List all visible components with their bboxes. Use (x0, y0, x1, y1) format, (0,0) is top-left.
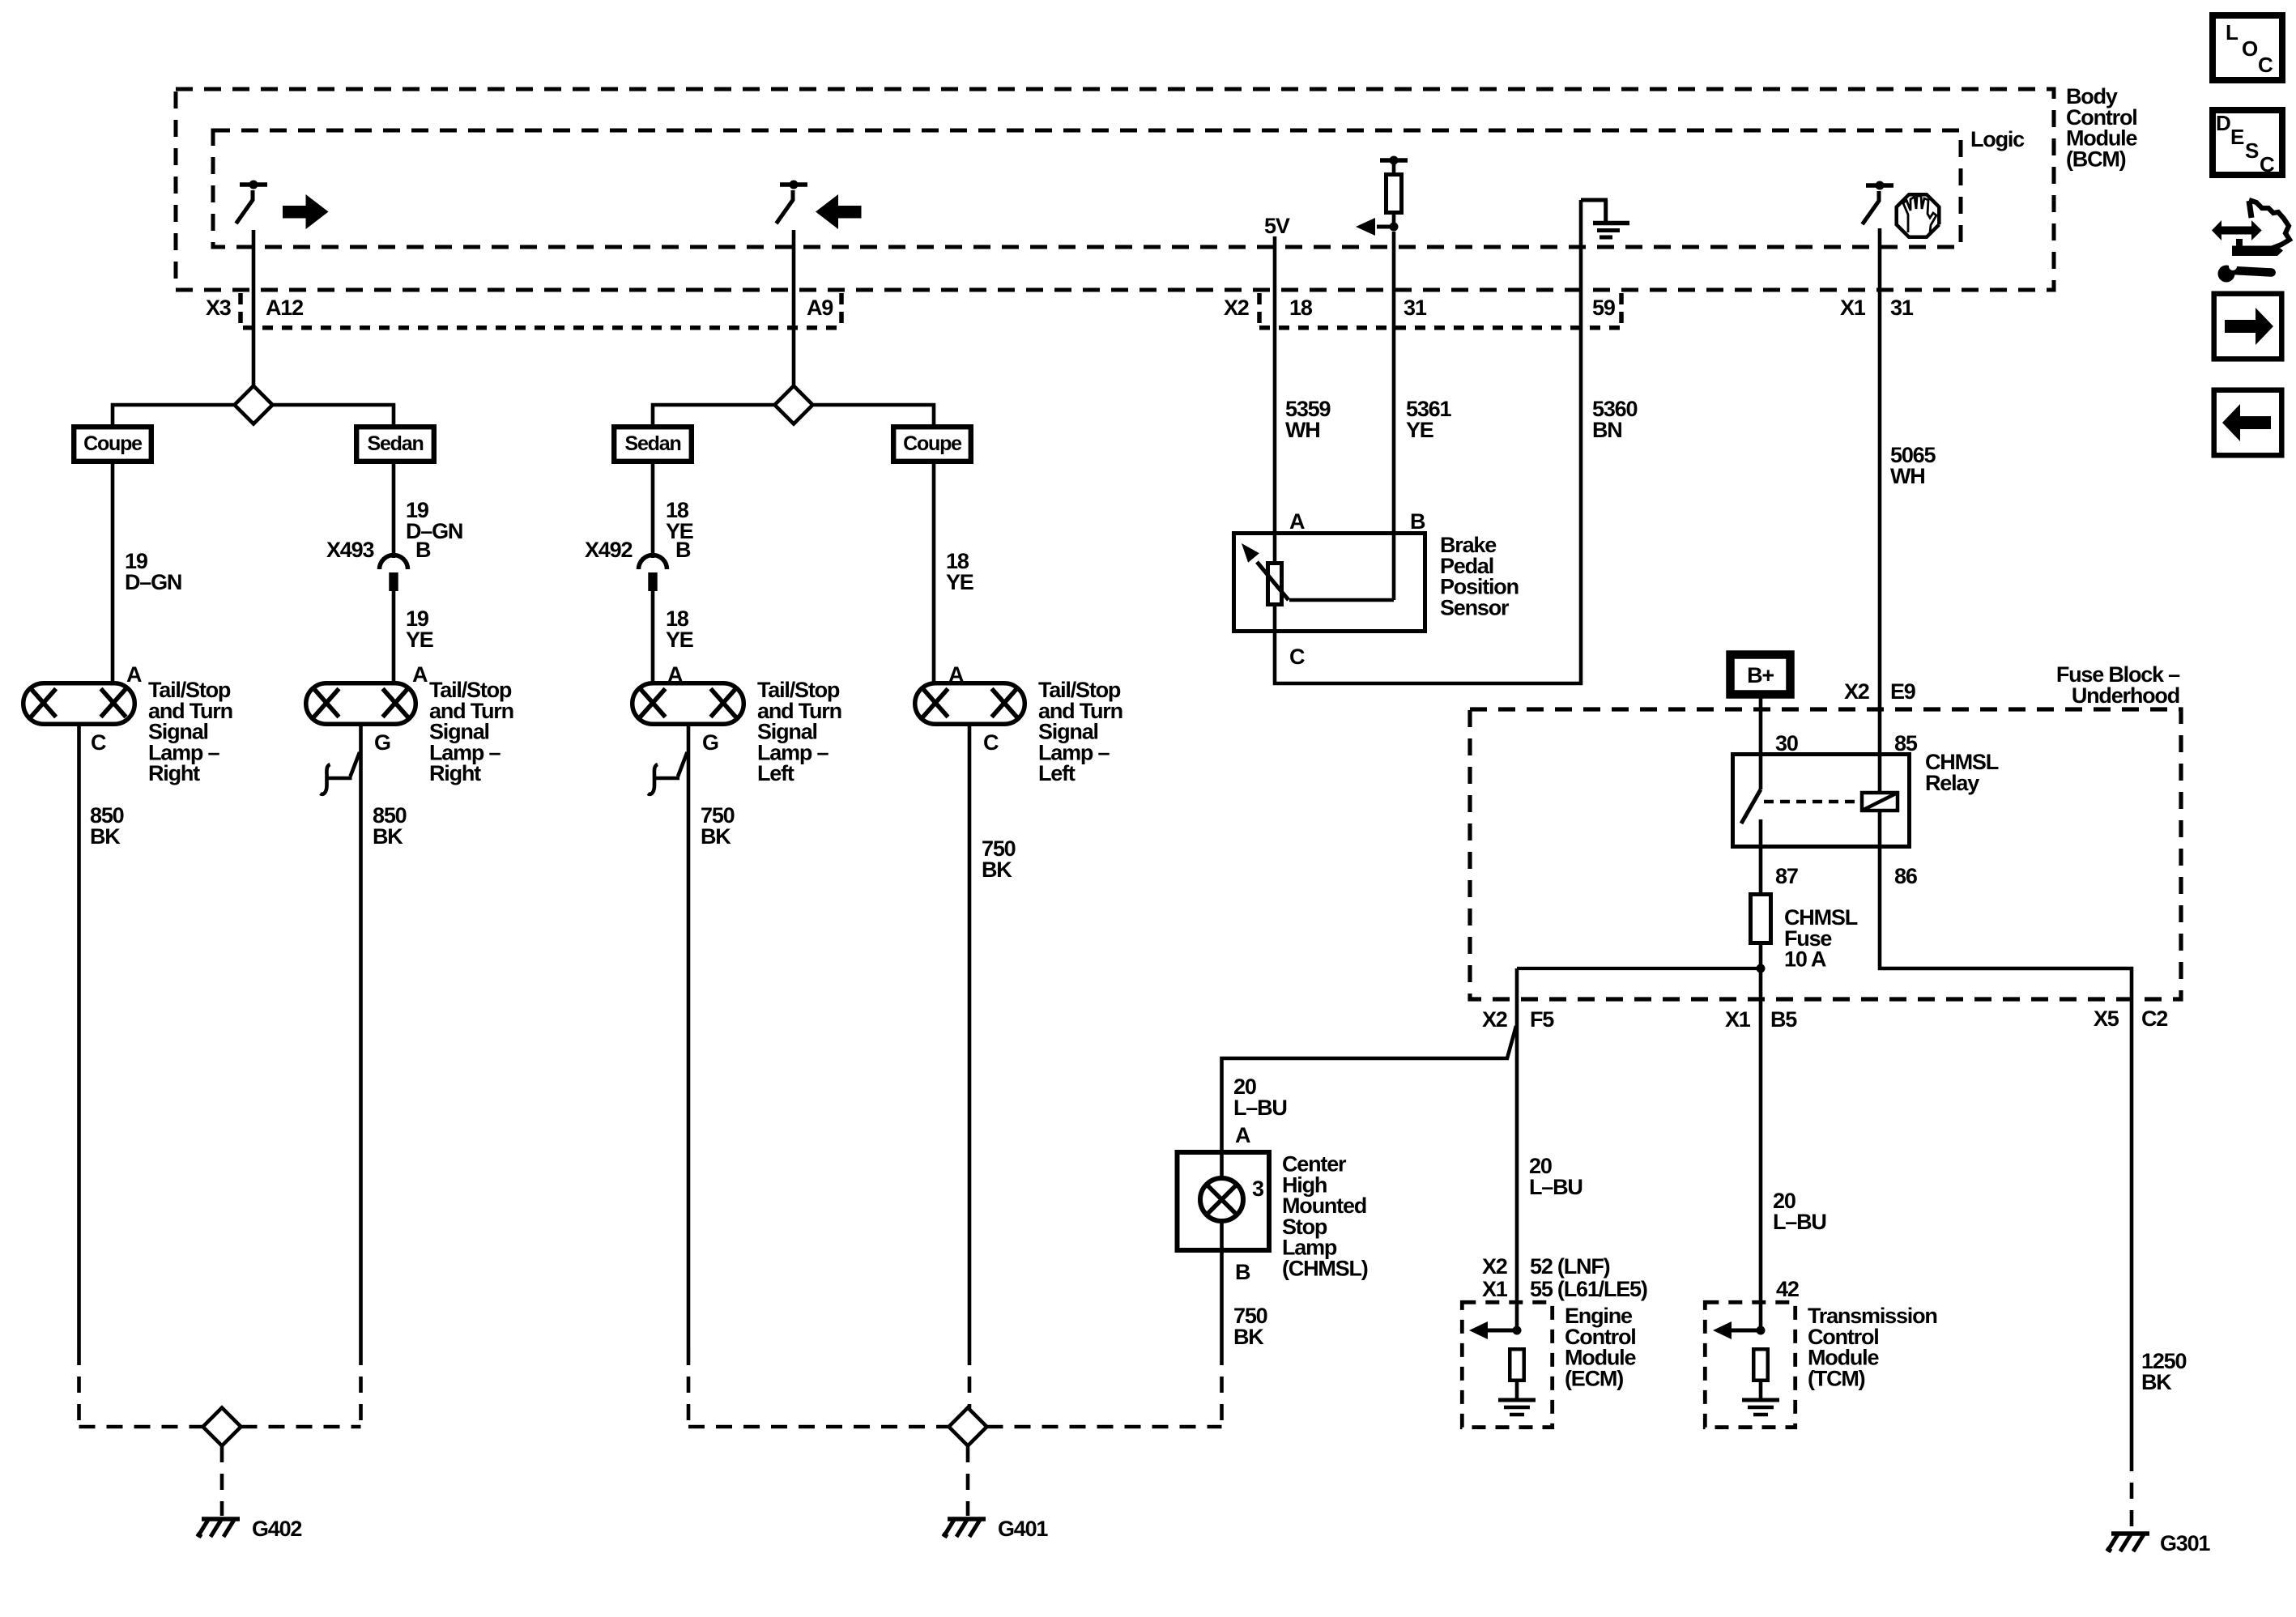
svg-text:Left: Left (757, 761, 794, 785)
svg-text:L–BU: L–BU (1773, 1210, 1826, 1234)
svg-text:Coupe: Coupe (903, 432, 962, 455)
svg-text:10 A: 10 A (1784, 947, 1826, 972)
svg-text:O: O (2242, 36, 2258, 61)
svg-text:30: 30 (1775, 731, 1798, 755)
svg-text:(TCM): (TCM) (1808, 1366, 1865, 1390)
svg-text:D–GN: D–GN (125, 570, 181, 594)
svg-text:G301: G301 (2160, 1531, 2210, 1555)
svg-text:A: A (126, 662, 142, 687)
svg-text:A: A (1235, 1123, 1250, 1147)
svg-text:L: L (2226, 20, 2238, 45)
svg-text:Sensor: Sensor (1440, 595, 1510, 619)
svg-text:A12: A12 (266, 296, 303, 320)
svg-text:42: 42 (1776, 1277, 1799, 1301)
svg-text:E9: E9 (1890, 679, 1916, 704)
svg-text:A: A (1289, 509, 1305, 534)
svg-text:B+: B+ (1747, 663, 1774, 687)
svg-text:BK: BK (701, 824, 731, 849)
svg-text:X5: X5 (2094, 1006, 2119, 1031)
svg-text:YE: YE (1406, 418, 1433, 442)
svg-text:G401: G401 (998, 1517, 1048, 1541)
svg-text:YE: YE (666, 628, 693, 652)
svg-text:X2: X2 (1482, 1007, 1507, 1032)
svg-text:A: A (667, 662, 683, 687)
svg-text:Coupe: Coupe (83, 432, 143, 455)
svg-text:C: C (983, 730, 999, 755)
svg-text:(ECM): (ECM) (1565, 1366, 1623, 1390)
svg-text:BN: BN (1592, 418, 1622, 442)
svg-text:X1: X1 (1725, 1007, 1751, 1032)
svg-text:Relay: Relay (1925, 771, 1979, 795)
svg-text:WH: WH (1890, 464, 1925, 488)
svg-text:WH: WH (1285, 418, 1320, 442)
svg-text:Right: Right (429, 761, 481, 785)
svg-text:L–BU: L–BU (1529, 1175, 1582, 1199)
svg-text:3: 3 (1252, 1177, 1264, 1201)
svg-text:Right: Right (148, 761, 200, 785)
svg-text:B: B (675, 538, 691, 562)
svg-text:X1: X1 (1840, 296, 1866, 320)
svg-text:52 (LNF): 52 (LNF) (1530, 1254, 1610, 1279)
svg-text:C2: C2 (2141, 1006, 2167, 1031)
svg-text:X2: X2 (1844, 679, 1869, 704)
svg-text:A9: A9 (807, 296, 833, 320)
svg-text:BK: BK (373, 824, 403, 849)
svg-text:55 (L61/LE5): 55 (L61/LE5) (1530, 1277, 1647, 1301)
svg-text:Sedan: Sedan (367, 432, 423, 455)
svg-text:YE: YE (946, 570, 973, 594)
svg-text:YE: YE (406, 628, 433, 652)
svg-text:F5: F5 (1530, 1007, 1554, 1032)
svg-text:BK: BK (90, 824, 121, 849)
svg-text:C: C (2260, 152, 2275, 177)
svg-text:X2: X2 (1224, 296, 1249, 320)
svg-text:C: C (91, 730, 106, 755)
svg-text:B: B (1235, 1260, 1250, 1284)
svg-text:D: D (2216, 111, 2230, 135)
svg-text:D–GN: D–GN (406, 519, 462, 543)
svg-text:31: 31 (1404, 296, 1427, 320)
svg-text:Underhood: Underhood (2072, 683, 2179, 708)
svg-text:BK: BK (1233, 1325, 1264, 1349)
svg-text:C: C (2258, 53, 2273, 77)
svg-text:18: 18 (1289, 296, 1313, 320)
svg-text:(BCM): (BCM) (2066, 147, 2126, 171)
svg-text:BK: BK (2141, 1370, 2172, 1394)
svg-text:Sedan: Sedan (624, 432, 680, 455)
svg-text:G: G (374, 730, 390, 755)
svg-text:86: 86 (1894, 864, 1918, 888)
svg-text:L–BU: L–BU (1233, 1096, 1287, 1120)
svg-text:B5: B5 (1770, 1007, 1797, 1032)
svg-text:S: S (2245, 138, 2259, 163)
svg-text:X1: X1 (1482, 1277, 1508, 1301)
svg-text:87: 87 (1775, 864, 1798, 888)
svg-text:B: B (415, 538, 431, 562)
svg-text:A: A (412, 662, 428, 687)
svg-text:85: 85 (1894, 731, 1918, 755)
svg-text:C: C (1289, 645, 1305, 669)
svg-text:B: B (1410, 509, 1425, 534)
svg-text:G: G (702, 730, 718, 755)
svg-text:X493: X493 (326, 538, 374, 562)
svg-text:X492: X492 (585, 538, 632, 562)
svg-text:Logic: Logic (1970, 127, 2025, 151)
svg-text:E: E (2230, 125, 2244, 149)
svg-text:X3: X3 (206, 296, 232, 320)
svg-text:59: 59 (1592, 296, 1616, 320)
svg-text:X2: X2 (1482, 1254, 1507, 1279)
svg-text:BK: BK (982, 857, 1012, 882)
svg-text:Left: Left (1038, 761, 1076, 785)
svg-text:31: 31 (1890, 296, 1914, 320)
svg-text:G402: G402 (252, 1517, 301, 1541)
svg-text:A: A (948, 662, 964, 687)
svg-text:(CHMSL): (CHMSL) (1282, 1257, 1368, 1281)
svg-text:5V: 5V (1264, 214, 1290, 238)
